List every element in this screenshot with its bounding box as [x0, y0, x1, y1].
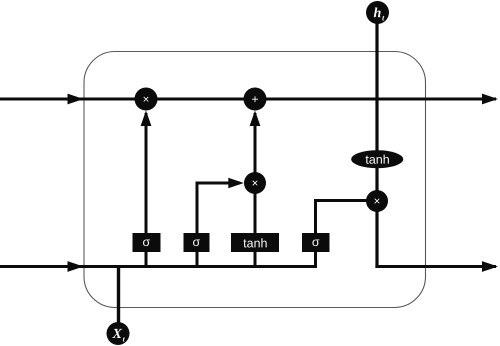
wire: h_t output vertical through tanh and multiply: [375, 23, 378, 268]
label sigma output: [312, 239, 319, 246]
node x_t input circle: [107, 322, 130, 345]
gate tanh (candidate layer) box: [231, 233, 279, 252]
node h_t output circle: [366, 1, 389, 24]
tanh ellipse (state activation): [351, 150, 403, 168]
wire: candidate tanh vertical to add node: [254, 113, 257, 268]
wire: output gate vertical and elbow to output multiply node: [316, 201, 368, 269]
node: output multiply circle: [366, 190, 388, 212]
label tanh ellipse: [366, 155, 389, 164]
wire: hidden-state input line (bottom, y=266.5): [0, 265, 317, 268]
label sigma forget: [143, 239, 150, 246]
glyph h: [374, 7, 381, 17]
arrowhead: hidden-state output right: [482, 261, 498, 272]
gate sigma 3 (output gate) box: [302, 233, 330, 252]
wire: x_t input stem: [117, 265, 120, 324]
glyph times forget: [143, 97, 148, 102]
node: add circle: [244, 88, 267, 111]
wire: hidden-state output line exiting right: [375, 265, 496, 268]
cell body rounded rectangle: [84, 52, 426, 308]
glyph X sub t: [123, 337, 125, 341]
label sigma input: [193, 239, 200, 246]
wire: forget gate vertical to multiply node: [145, 113, 148, 268]
glyph plus: [252, 96, 258, 102]
glyph h sub t: [382, 16, 384, 21]
wire: input gate vertical and elbow to multiply node: [197, 183, 240, 268]
glyph times input: [252, 180, 257, 185]
arrowhead: input gate into multiply node: [228, 178, 244, 188]
arrowhead: cell-state entering cell: [68, 94, 84, 105]
gate sigma 1 (forget gate) box: [133, 233, 161, 252]
glyph X: [112, 329, 122, 338]
arrowhead: hidden-state entering cell: [68, 261, 84, 272]
arrowhead: candidate into add node: [250, 111, 261, 127]
glyph times output: [374, 198, 379, 203]
node: input multiply circle: [244, 172, 266, 194]
wire: cell-state line (top, y=99): [0, 98, 496, 101]
arrowhead: forget gate into multiply node: [141, 111, 152, 127]
label tanh gate: [243, 238, 266, 247]
node: forget multiply circle: [135, 88, 158, 111]
gate sigma 2 (input gate) box: [184, 233, 210, 252]
arrowhead: cell-state output right: [482, 94, 498, 105]
